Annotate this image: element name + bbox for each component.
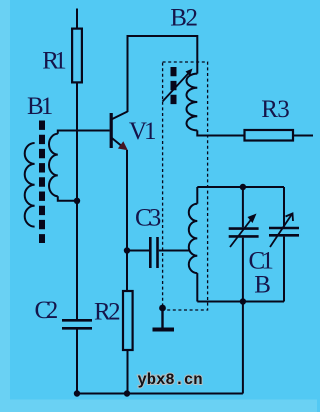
tank bottom wire (197, 301, 284, 303)
capacitor C3 (127, 237, 190, 268)
wire B1 secondary bottom to left rail (58, 196, 77, 201)
junction dot ground (159, 305, 166, 312)
svg-text:C1: C1 (249, 248, 274, 275)
junction dot B1 bottom (74, 198, 80, 204)
ground (153, 308, 175, 330)
svg-text:B1: B1 (27, 93, 53, 120)
transformer B2 secondary coil (189, 204, 198, 273)
transformer B1 core (39, 121, 45, 244)
svg-text:B: B (254, 272, 271, 299)
resistor R3 (245, 130, 314, 141)
svg-text:C2: C2 (35, 297, 59, 324)
transformer B2 tuning arrow (163, 71, 192, 102)
junction dot tank top (240, 184, 246, 190)
svg-text:B2: B2 (170, 4, 198, 31)
wire collector to B2 primary (128, 36, 198, 112)
wire B2 secondary bottom lead (196, 273, 198, 301)
svg-text:C3: C3 (135, 204, 161, 231)
svg-text:R1: R1 (42, 48, 67, 75)
svg-text:ybx8.cn: ybx8.cn (138, 371, 203, 389)
transistor V1 collector stroke (111, 112, 127, 120)
bottom rail wire (77, 393, 243, 395)
transformer B1 primary coil (25, 143, 35, 227)
wire R1 node down left rail (76, 131, 78, 320)
junction dot emitter C3 (124, 247, 130, 253)
capacitor C2 (62, 320, 92, 393)
variable capacitor C1 section a (229, 187, 259, 302)
junction dot tank bottom (240, 298, 246, 304)
watermark ybx8.cn (138, 371, 203, 389)
resistor R1 (72, 9, 82, 131)
svg-text:R3: R3 (261, 96, 290, 123)
tank top wire (197, 186, 284, 188)
transformer B2 shield dashed box (163, 62, 208, 310)
svg-text:V1: V1 (129, 118, 157, 145)
transistor V1 base bar (110, 113, 113, 148)
wire B2 secondary top lead (196, 187, 198, 204)
wire B2 primary bottom to R3 (197, 130, 243, 135)
wire tank to bottom rail (242, 302, 244, 394)
svg-text:R2: R2 (94, 298, 121, 325)
resistor R2 (123, 291, 133, 394)
wire B1 secondary top to base (58, 131, 110, 134)
transistor V1 emitter stroke with arrow (111, 138, 123, 148)
junction dot R2 rail (124, 390, 130, 396)
wire emitter down to R2 (126, 150, 128, 291)
variable capacitor C1 section b (269, 187, 299, 302)
junction dot C2 rail (74, 390, 80, 396)
transformer B1 secondary coil (49, 134, 58, 196)
transformer B2 primary coil (187, 74, 198, 131)
transformer B2 core (171, 67, 177, 105)
